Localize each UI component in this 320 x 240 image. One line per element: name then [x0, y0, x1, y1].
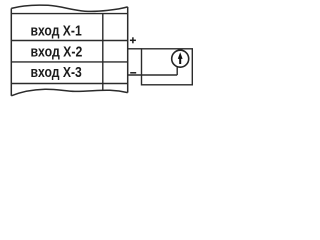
current source circle	[172, 50, 189, 67]
current source arrow	[178, 52, 183, 64]
svg-text:вход Х-1: вход Х-1	[31, 22, 82, 39]
terminal table bottom line	[11, 83, 127, 85]
row divider 2	[11, 61, 127, 63]
terminal column divider	[102, 14, 104, 91]
wire riser to current source	[176, 67, 178, 75]
device box torn bottom edge	[11, 89, 127, 96]
wire + (top)	[128, 48, 142, 50]
device box torn top edge	[11, 5, 127, 11]
device box left edge (torn view)	[10, 8, 12, 95]
svg-text:вход Х-3: вход Х-3	[31, 64, 82, 81]
svg-text:вход Х-2: вход Х-2	[31, 44, 83, 61]
device box right edge	[127, 7, 129, 93]
minus polarity mark	[130, 72, 136, 74]
wire - (bottom)	[128, 74, 178, 76]
terminal table top line	[11, 13, 127, 15]
row divider 1	[11, 40, 127, 42]
plus polarity mark	[130, 37, 136, 43]
sensor box	[142, 49, 193, 85]
